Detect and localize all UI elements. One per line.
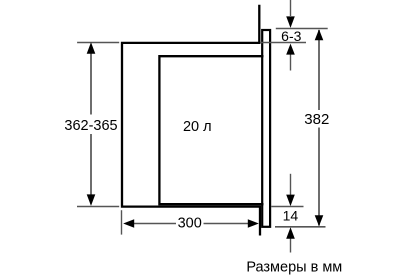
- svg-text:6-3: 6-3: [281, 28, 301, 44]
- svg-text:362-365: 362-365: [64, 118, 117, 134]
- svg-text:382: 382: [304, 111, 329, 128]
- svg-text:14: 14: [283, 208, 299, 224]
- svg-text:300: 300: [178, 215, 202, 231]
- svg-text:Размеры в мм: Размеры в мм: [246, 259, 342, 275]
- svg-text:20 л: 20 л: [183, 119, 212, 135]
